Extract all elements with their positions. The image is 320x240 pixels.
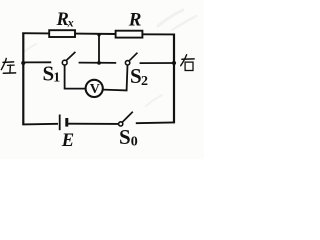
- label R: [128, 9, 142, 30]
- switch S0: [119, 112, 133, 126]
- label E: [61, 131, 74, 151]
- wire middle center segment: [79, 62, 117, 64]
- wire right vertical: [173, 34, 175, 124]
- svg-text:2: 2: [141, 74, 148, 89]
- wire voltmeter right lead (right and up to S2 pivot): [103, 65, 128, 91]
- resistor Rx: [49, 30, 75, 37]
- svg-text:R: R: [128, 9, 142, 30]
- label 左 (drawn strokes): [1, 58, 15, 73]
- svg-text:0: 0: [131, 135, 138, 150]
- battery E: [60, 115, 67, 131]
- wire vertical from top junction to middle wire: [98, 34, 100, 63]
- node junction middle: [97, 61, 101, 65]
- node junction top (between Rx and R): [97, 33, 100, 36]
- wire bottom right segment: [136, 121, 175, 124]
- svg-text:E: E: [61, 131, 74, 151]
- label S1: [43, 62, 61, 86]
- wire middle right segment: [140, 62, 175, 64]
- svg-text:1: 1: [53, 71, 60, 86]
- svg-text:S: S: [119, 125, 131, 149]
- wire top horizontal: [22, 33, 174, 34]
- svg-text:x: x: [67, 16, 74, 30]
- label Rx: [56, 10, 74, 30]
- node left junction (左 terminal): [21, 61, 25, 65]
- switch S1: [62, 52, 75, 65]
- svg-text:V: V: [90, 82, 100, 97]
- wire middle left segment: [23, 61, 51, 63]
- wire bottom left segment: [22, 123, 58, 126]
- faint scan smudges (background noise): [24, 10, 196, 106]
- label S0: [119, 125, 138, 150]
- node right junction (右 terminal): [172, 61, 176, 65]
- wire left vertical: [22, 33, 24, 125]
- label 右 (drawn strokes): [181, 55, 194, 71]
- wire bottom middle segment: [68, 123, 118, 125]
- wire voltmeter left lead (from S1 pivot down and right): [65, 65, 86, 89]
- resistor R: [116, 31, 143, 38]
- svg-text:S: S: [130, 64, 142, 88]
- label S2: [130, 64, 148, 89]
- voltmeter V: [86, 80, 103, 97]
- switch S2: [125, 53, 137, 65]
